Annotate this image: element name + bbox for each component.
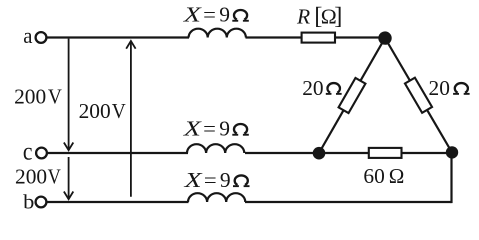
- terminal a: [36, 32, 47, 43]
- label X = 9 ohm (a-line): [183, 3, 249, 27]
- svg-text:=: =: [203, 117, 216, 141]
- svg-text:a: a: [23, 23, 32, 48]
- label R [ohm]: [296, 2, 342, 29]
- terminal c: [36, 148, 47, 159]
- svg-text:9: 9: [220, 168, 231, 192]
- svg-text:]: ]: [334, 2, 342, 29]
- wire a-line horizontal: [47, 36, 189, 38]
- wire b-line inductor to right corner: [245, 201, 452, 203]
- label X = 9 ohm (c-line): [183, 117, 249, 141]
- wire c-line inductor to delta bottom-left node: [245, 152, 319, 154]
- node bottom-left vertex: [313, 147, 326, 160]
- svg-text:c: c: [23, 139, 33, 166]
- svg-text:X: X: [183, 117, 202, 141]
- label 200 V (c-b): [15, 164, 61, 188]
- wire a-line between inductor and R: [246, 36, 302, 38]
- voltage arrow a-to-c shaft: [68, 39, 70, 149]
- resistor 20 ohm right (rotated): [405, 78, 432, 113]
- svg-text:9: 9: [219, 3, 230, 27]
- node top vertex: [378, 31, 391, 44]
- label 20 ohm left: [302, 76, 341, 100]
- voltage arrow c-to-b head: [64, 192, 73, 200]
- voltage arrow a-to-c head: [64, 143, 73, 151]
- label 20 ohm right: [429, 76, 470, 100]
- svg-text:X: X: [183, 168, 202, 192]
- svg-text:=: =: [204, 168, 217, 192]
- svg-text:R: R: [296, 4, 310, 28]
- wire c-line horizontal: [48, 152, 189, 154]
- svg-text:20: 20: [302, 76, 323, 100]
- svg-text:200: 200: [15, 164, 47, 188]
- resistor 20 ohm left (rotated): [339, 78, 366, 113]
- inductor X2 on c-line: [187, 144, 244, 153]
- resistor R box: [302, 33, 335, 43]
- wire delta right edge: [385, 38, 452, 153]
- voltage arrow c-to-b shaft: [68, 157, 70, 198]
- label 60 ohm: [363, 164, 404, 188]
- label X = 9 ohm (b-line): [183, 168, 249, 192]
- svg-text:60: 60: [363, 164, 384, 188]
- svg-text:Ω: Ω: [389, 164, 405, 188]
- svg-text:9: 9: [219, 117, 230, 141]
- svg-text:200: 200: [79, 99, 111, 123]
- wire b-line horizontal: [47, 201, 189, 203]
- svg-text:20: 20: [429, 76, 450, 100]
- node bottom-right vertex: [446, 146, 458, 158]
- wire delta left edge: [319, 38, 385, 153]
- svg-text:200: 200: [14, 84, 46, 108]
- resistor 60 ohm box: [369, 148, 402, 158]
- voltage arrow b-to-a shaft: [130, 43, 132, 197]
- label 200 V (b-a): [79, 99, 127, 123]
- svg-text:X: X: [183, 3, 202, 27]
- svg-text:V: V: [48, 164, 62, 188]
- svg-text:V: V: [112, 99, 126, 123]
- terminal b: [36, 197, 47, 208]
- label 200 V (a-c): [14, 84, 62, 108]
- voltage arrow b-to-a head: [126, 41, 135, 49]
- inductor X3 on b-line: [188, 193, 245, 202]
- svg-text:b: b: [23, 192, 34, 214]
- svg-text:V: V: [48, 84, 62, 108]
- wire vertical right riser b to delta bottom-right node: [450, 153, 452, 204]
- wire delta bottom edge: [319, 152, 452, 154]
- svg-text:=: =: [203, 3, 216, 27]
- wire a-line R to delta top node: [335, 36, 385, 38]
- inductor X1 on a-line: [189, 29, 246, 38]
